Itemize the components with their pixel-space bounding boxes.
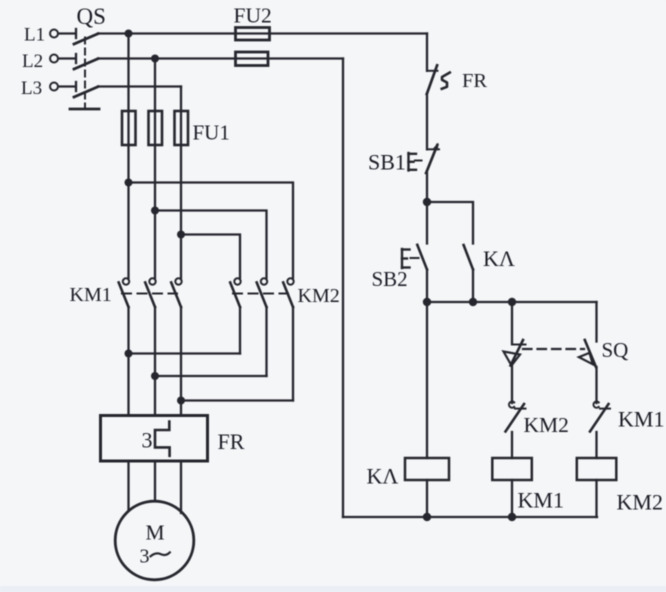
svg-text:L2: L2 <box>22 51 43 72</box>
svg-text:SB1: SB1 <box>368 150 406 175</box>
svg-text:L1: L1 <box>24 25 45 46</box>
svg-text:SQ: SQ <box>602 338 629 362</box>
svg-text:FU1: FU1 <box>193 121 230 145</box>
svg-text:KΛ: KΛ <box>483 246 515 271</box>
svg-text:L3: L3 <box>21 78 42 99</box>
svg-text:KM2: KM2 <box>524 413 569 437</box>
svg-text:KΛ: KΛ <box>367 464 399 489</box>
svg-text:FU2: FU2 <box>234 4 272 28</box>
svg-text:FR: FR <box>462 70 487 92</box>
svg-text:M: M <box>146 521 165 545</box>
svg-text:SB2: SB2 <box>372 267 408 291</box>
svg-text:QS: QS <box>77 4 106 29</box>
svg-text:KM2: KM2 <box>617 490 663 515</box>
svg-text:KM2: KM2 <box>298 285 340 307</box>
svg-text:3: 3 <box>142 428 153 453</box>
svg-text:FR: FR <box>218 429 245 454</box>
svg-text:KM1: KM1 <box>518 488 564 513</box>
svg-text:3: 3 <box>140 546 150 568</box>
svg-text:KM1: KM1 <box>70 284 112 306</box>
svg-text:KM1: KM1 <box>618 407 664 432</box>
